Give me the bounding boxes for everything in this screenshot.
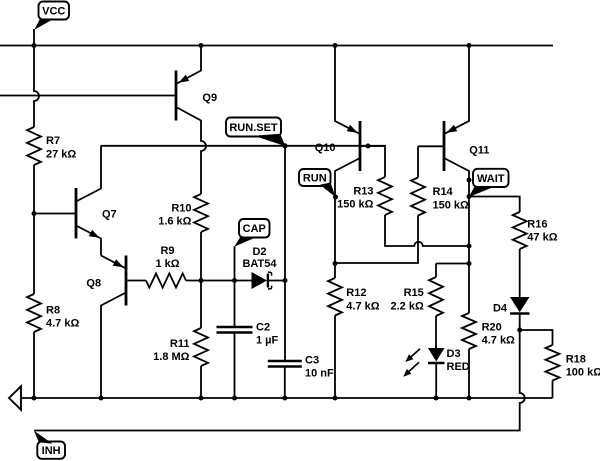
svg-text:R9: R9 — [160, 245, 174, 257]
svg-text:R12: R12 — [346, 287, 366, 299]
svg-text:100 kΩ: 100 kΩ — [566, 367, 600, 379]
svg-text:RUN: RUN — [303, 173, 327, 185]
svg-text:4.7 kΩ: 4.7 kΩ — [346, 300, 379, 312]
svg-text:Q9: Q9 — [202, 92, 217, 104]
svg-text:INH: INH — [42, 445, 61, 457]
svg-text:VCC: VCC — [42, 6, 65, 18]
svg-text:R8: R8 — [46, 305, 60, 317]
svg-text:150 kΩ: 150 kΩ — [337, 199, 374, 211]
svg-text:Q8: Q8 — [86, 277, 101, 289]
svg-text:1.6 kΩ: 1.6 kΩ — [158, 216, 191, 228]
svg-text:27 kΩ: 27 kΩ — [46, 148, 76, 160]
svg-text:Q11: Q11 — [469, 145, 489, 157]
svg-text:Q10: Q10 — [315, 142, 336, 154]
svg-text:WAIT: WAIT — [477, 173, 505, 185]
svg-text:Q7: Q7 — [102, 208, 117, 220]
svg-text:4.7 kΩ: 4.7 kΩ — [46, 318, 79, 330]
svg-text:R14: R14 — [433, 186, 454, 198]
svg-text:R11: R11 — [170, 338, 190, 350]
svg-text:R16: R16 — [527, 219, 547, 231]
svg-text:1 kΩ: 1 kΩ — [155, 258, 179, 270]
svg-text:RED: RED — [447, 361, 470, 373]
svg-text:R15: R15 — [404, 287, 424, 299]
svg-text:D2: D2 — [252, 246, 266, 258]
svg-text:R20: R20 — [482, 322, 502, 334]
svg-text:RUN.SET: RUN.SET — [229, 122, 278, 134]
svg-text:R10: R10 — [171, 202, 191, 214]
svg-text:BAT54: BAT54 — [242, 258, 277, 270]
svg-text:R13: R13 — [353, 186, 373, 198]
svg-text:4.7 kΩ: 4.7 kΩ — [482, 335, 515, 347]
svg-text:1.8 MΩ: 1.8 MΩ — [153, 351, 190, 363]
svg-text:CAP: CAP — [243, 223, 266, 235]
svg-text:D3: D3 — [447, 348, 461, 360]
svg-text:1 µF: 1 µF — [256, 335, 279, 347]
svg-text:2.2 kΩ: 2.2 kΩ — [391, 300, 424, 312]
svg-text:D4: D4 — [493, 303, 508, 315]
svg-text:150 kΩ: 150 kΩ — [433, 199, 470, 211]
svg-text:R7: R7 — [46, 135, 60, 147]
svg-text:C2: C2 — [256, 321, 270, 333]
svg-text:C3: C3 — [305, 355, 319, 367]
svg-text:10 nF: 10 nF — [305, 368, 334, 380]
svg-text:R18: R18 — [566, 354, 586, 366]
svg-text:47 kΩ: 47 kΩ — [527, 232, 557, 244]
